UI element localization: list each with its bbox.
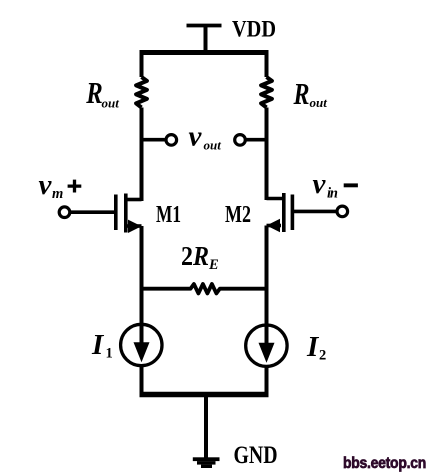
wire right branch mid xyxy=(265,108,269,201)
svg-text:out: out xyxy=(204,137,222,152)
svg-text:2: 2 xyxy=(319,348,326,364)
svg-text:v: v xyxy=(39,169,53,201)
wire left branch upper xyxy=(140,50,144,77)
svg-text:v: v xyxy=(189,121,203,153)
resistor Rout (right) xyxy=(261,77,272,108)
2RE label xyxy=(181,240,219,273)
svg-text:VDD: VDD xyxy=(232,17,276,43)
node input terminal left xyxy=(59,207,70,218)
svg-text:R: R xyxy=(86,75,103,110)
ground xyxy=(193,457,220,468)
wire right tail into current source xyxy=(265,289,269,343)
svg-text:1: 1 xyxy=(106,346,113,362)
transistor M1 xyxy=(116,194,142,233)
svg-text:bbs.eetop.cn: bbs.eetop.cn xyxy=(343,455,426,472)
svg-text:v: v xyxy=(313,168,327,200)
svg-text:out: out xyxy=(310,95,328,110)
wire right branch lower xyxy=(265,226,269,291)
svg-text:2R: 2R xyxy=(181,240,209,271)
transistor M2 xyxy=(267,193,293,232)
svg-text:I: I xyxy=(91,329,105,361)
wire top rail xyxy=(140,50,269,55)
vin+ label (left input) xyxy=(39,169,82,202)
wire right branch upper xyxy=(265,50,269,77)
vin- label (right input) xyxy=(313,168,358,202)
svg-text:GND: GND xyxy=(234,442,278,469)
VDD power symbol xyxy=(187,26,222,54)
svg-text:M2: M2 xyxy=(225,202,251,228)
wire bottom rail xyxy=(140,392,269,398)
svg-text:m: m xyxy=(52,186,63,202)
current source I2 xyxy=(246,325,287,366)
wire left branch lower (source to tail) xyxy=(140,226,144,290)
svg-text:in: in xyxy=(327,186,338,202)
wire left tail into current source xyxy=(140,289,144,343)
resistor 2RE (horizontal) xyxy=(142,284,267,293)
vout label xyxy=(189,121,222,153)
node vout right terminal xyxy=(235,135,246,146)
wire right gate lead xyxy=(294,210,336,214)
I2 label xyxy=(306,331,326,364)
Rout label (right) xyxy=(293,76,328,111)
wire left branch mid xyxy=(140,108,144,202)
wire below I2 xyxy=(265,367,269,394)
Rout label (left) xyxy=(86,75,120,111)
svg-text:I: I xyxy=(306,331,320,363)
svg-text:R: R xyxy=(293,76,310,111)
resistor Rout (left) xyxy=(136,77,147,108)
wire below I1 xyxy=(140,367,144,394)
svg-text:M1: M1 xyxy=(156,202,181,228)
wire left output stub xyxy=(142,138,165,142)
node input terminal right xyxy=(337,206,348,217)
node vout left terminal xyxy=(166,135,177,146)
wire right output stub xyxy=(247,138,267,142)
svg-text:E: E xyxy=(208,257,219,273)
I1 label xyxy=(91,329,113,362)
svg-text:out: out xyxy=(102,95,120,110)
wire left gate lead xyxy=(71,210,115,214)
current source I1 xyxy=(121,324,162,365)
wire ground stem xyxy=(204,395,208,459)
